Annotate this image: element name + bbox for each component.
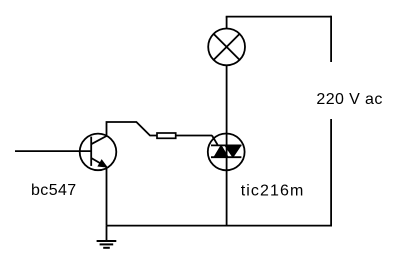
ground stem — [106, 226, 108, 241]
transistor Q1 (bc547) circle — [80, 134, 117, 171]
wire: right side upper segment — [330, 16, 332, 62]
lamp L1 cross stroke 2 — [214, 34, 240, 60]
transistor Q1 collector diagonal — [91, 136, 106, 144]
wire: right side lower segment — [330, 119, 332, 226]
wire: gate diagonal into triac — [212, 136, 218, 145]
resistor R1 body — [157, 133, 176, 138]
triac U1 left triangle (pointing up) — [214, 145, 228, 157]
wire: resistor to triac gate — [176, 135, 213, 137]
wire: lamp bottom through triac to bottom wire — [226, 65, 228, 225]
svg-text:bc547: bc547 — [31, 182, 77, 199]
transistor Q1 emitter arrowhead — [99, 160, 107, 166]
svg-text:220 V ac: 220 V ac — [316, 91, 382, 108]
lamp L1 cross stroke 1 — [214, 34, 240, 60]
wire: collector up and over to resistor — [107, 122, 158, 136]
ground bar 3 — [103, 247, 110, 249]
triac U1 bottom bar (MT1 plate) — [211, 156, 241, 158]
triac U1 top bar (MT2 plate) — [211, 144, 241, 146]
triac U1 circle — [208, 134, 245, 171]
ground bar 2 — [100, 243, 114, 245]
wire: lamp top to top-left corner — [226, 17, 228, 29]
wire: bottom horizontal run — [107, 225, 333, 227]
triac U1 right triangle (pointing down) — [225, 145, 241, 157]
svg-text:tic216m: tic216m — [241, 183, 305, 200]
transistor Q1 emitter diagonal — [91, 158, 106, 167]
wire: top horizontal run — [226, 16, 331, 18]
wire: base lead from left — [15, 150, 91, 152]
transistor Q1 base bar — [90, 137, 92, 166]
ground bar 1 — [97, 240, 117, 242]
wire: emitter down to bottom rail — [106, 167, 108, 226]
lamp L1 circle — [208, 29, 245, 66]
